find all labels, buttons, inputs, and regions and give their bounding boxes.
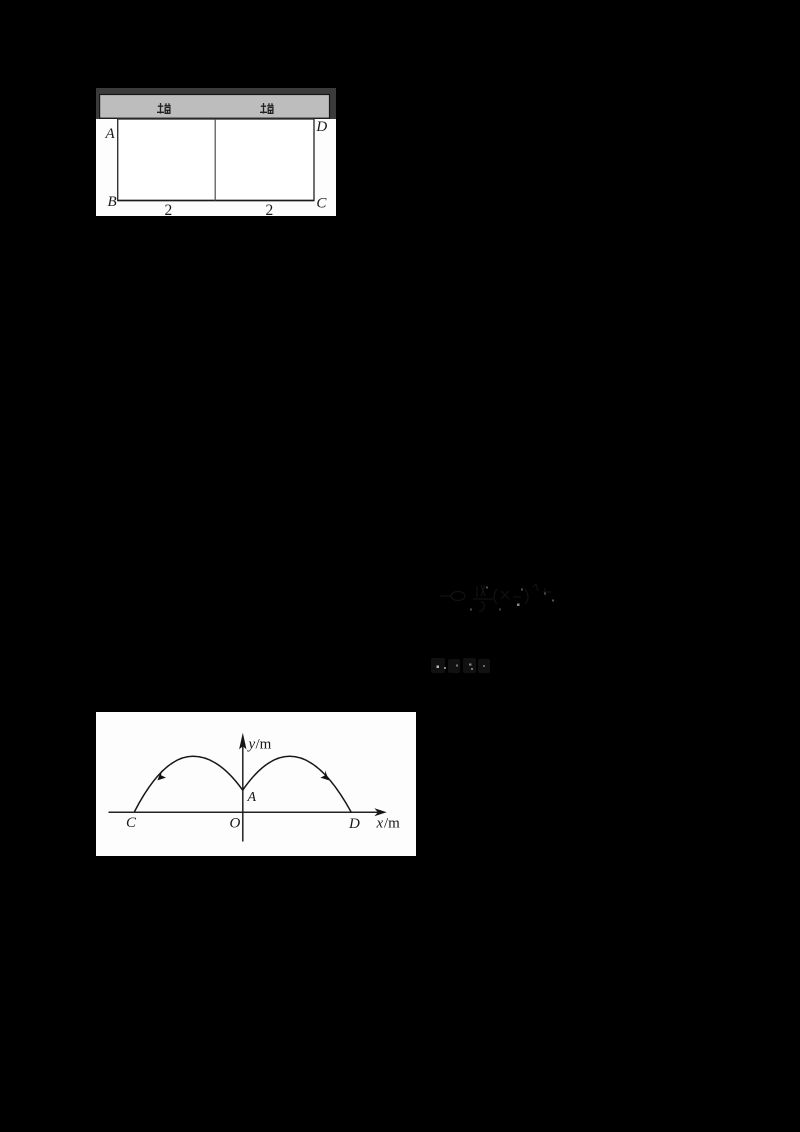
svg-text:x: x bbox=[376, 815, 384, 831]
svg-text:A: A bbox=[247, 790, 257, 805]
svg-text:/m: /m bbox=[256, 736, 272, 752]
svg-text:A: A bbox=[105, 126, 116, 142]
svg-text:2: 2 bbox=[266, 202, 274, 216]
svg-text:D: D bbox=[315, 119, 327, 135]
x axis bbox=[109, 811, 380, 813]
svg-text:/m: /m bbox=[384, 815, 400, 831]
svg-text:B: B bbox=[108, 194, 117, 210]
bottom edge BC darker bbox=[118, 200, 314, 202]
svg-text:y: y bbox=[247, 736, 256, 752]
figure 1: rectangle ABCD against wall bbox=[96, 88, 336, 216]
wall glyph 墙 left bbox=[157, 103, 171, 114]
left parabola arc bbox=[135, 756, 243, 811]
wall glyph 墙 right bbox=[260, 103, 274, 114]
y axis arrow bbox=[239, 732, 246, 749]
x axis arrow bbox=[374, 808, 387, 816]
svg-text:O: O bbox=[230, 815, 241, 831]
white panel background bbox=[96, 712, 416, 856]
svg-text:D: D bbox=[348, 816, 360, 832]
figure 2: trajectory plot bbox=[96, 712, 416, 856]
svg-text:C: C bbox=[126, 814, 137, 830]
rectangle ABCD bbox=[118, 119, 314, 201]
y axis bbox=[242, 745, 244, 842]
faint text 2 bbox=[430, 656, 492, 676]
left curve arrowhead bbox=[157, 770, 166, 780]
right curve arrowhead bbox=[320, 770, 329, 780]
right parabola arc bbox=[243, 756, 351, 812]
wall light bar bbox=[100, 95, 330, 119]
middle divider bbox=[214, 119, 216, 201]
wall dark frame bbox=[96, 88, 336, 119]
svg-text:2: 2 bbox=[165, 202, 173, 216]
svg-text:C: C bbox=[316, 196, 327, 212]
white panel background bbox=[96, 88, 336, 216]
faint formula text bbox=[437, 583, 557, 617]
